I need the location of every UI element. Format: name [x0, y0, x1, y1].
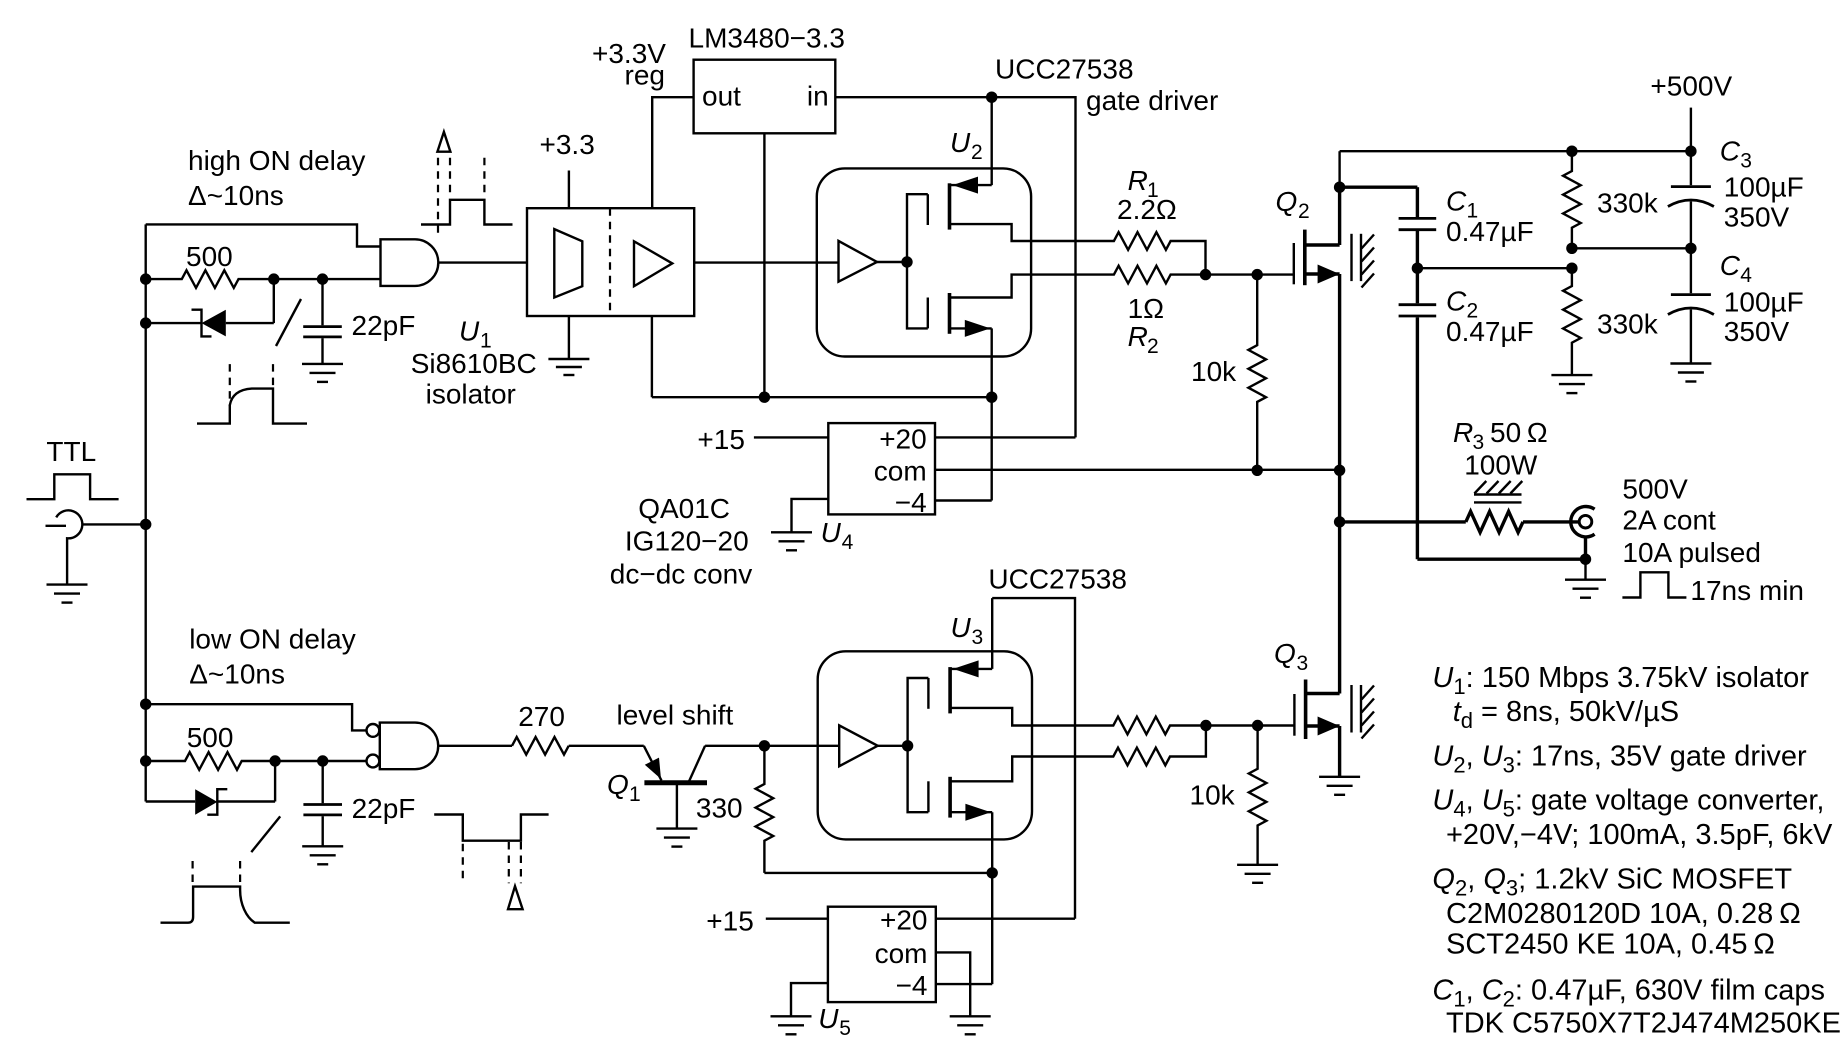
svg-text:50 Ω: 50 Ω — [1490, 417, 1548, 448]
wire 500 to NAND gate B input — [275, 760, 366, 762]
svg-text:100µF: 100µF — [1724, 172, 1804, 203]
U3 upper MOSFET — [928, 660, 1032, 725]
node U2 gate — [901, 256, 912, 267]
capacitor 22pF (top) — [303, 279, 342, 364]
svg-text:100W: 100W — [1464, 450, 1538, 481]
gate driver U2 box — [817, 168, 1031, 356]
connector J1 (output jack) — [1571, 507, 1595, 560]
regulator LM3480-3.3 box — [694, 60, 836, 134]
wire U5 +20 pin to U3 supply — [936, 918, 1075, 920]
node trunk-500 top — [140, 273, 151, 284]
node 500-diode top — [268, 273, 279, 284]
Q2 case hatch mark — [1352, 234, 1375, 288]
node C3-C4 — [1685, 243, 1696, 254]
svg-text:td = 8ns, 50kV/µS: td = 8ns, 50kV/µS — [1453, 696, 1679, 733]
node reg gnd rail — [759, 392, 770, 403]
svg-text:Q: Q — [607, 769, 629, 800]
wire AND gate output to isolator — [438, 261, 527, 263]
svg-text:350V: 350V — [1724, 316, 1790, 347]
svg-text:UCC27538: UCC27538 — [988, 564, 1127, 595]
svg-text:1: 1 — [629, 783, 641, 806]
node 22pF bottom — [317, 755, 328, 766]
capacitor C4 (electrolytic) — [1668, 248, 1714, 363]
svg-text:R: R — [1128, 321, 1148, 352]
wire C1-C2 node to divider — [1417, 267, 1572, 269]
node rail-330k — [1566, 146, 1577, 157]
wire buffer output to gate node (U3) — [878, 745, 908, 747]
svg-text:3: 3 — [1740, 150, 1752, 173]
U2 source rail vertical — [991, 328, 993, 500]
dc-dc converter U4 box — [828, 423, 935, 514]
svg-text:U: U — [459, 316, 480, 347]
isolator right bottom stub to ground rail — [651, 316, 653, 397]
svg-text:C1, C2: 0.47µF, 630V film caps: C1, C2: 0.47µF, 630V film caps — [1432, 975, 1825, 1012]
node U2 source rail — [986, 392, 997, 403]
resistor R2 1ohm — [1031, 266, 1205, 284]
U5 ground stub — [791, 983, 828, 1016]
node R1-R2 join — [1200, 269, 1211, 280]
svg-text:330k: 330k — [1597, 188, 1659, 219]
svg-text:+20: +20 — [880, 905, 928, 936]
resistor 270 — [512, 737, 569, 755]
node Q1 collector — [759, 740, 770, 751]
+500V rail horizontal — [1340, 150, 1691, 152]
+3.3 supply stub to isolator — [568, 171, 570, 209]
svg-text:isolator: isolator — [426, 379, 516, 410]
wire +15 to U5 — [766, 918, 828, 920]
svg-text:U: U — [818, 1003, 839, 1034]
AND gate A1 (top) — [381, 239, 439, 286]
zener diode D2 (bottom delay) — [146, 761, 275, 815]
TTL pulse generator symbol — [46, 510, 146, 584]
svg-text:3: 3 — [1297, 652, 1309, 675]
isolator U1 box — [527, 208, 694, 316]
ground (TTL source) — [47, 585, 88, 603]
dc-dc converter U5 box — [828, 907, 936, 1002]
ground (isolator left side) — [548, 316, 589, 375]
wire buffer output to gate node — [877, 261, 907, 263]
node U3 gate — [902, 740, 913, 751]
svg-text:330: 330 — [696, 793, 743, 824]
Q3 case hatch mark — [1352, 685, 1375, 739]
U3 input buffer triangle — [839, 725, 878, 766]
svg-text:100µF: 100µF — [1724, 287, 1804, 318]
edge stroke (rising edge mark, top) — [276, 299, 301, 346]
isolator input buffer trapezoid — [554, 229, 582, 297]
wire top input to AND gate A1 — [146, 224, 381, 246]
ground (connector) — [1565, 559, 1606, 598]
svg-text:TDK C5750X7T2J474M250KE: TDK C5750X7T2J474M250KE — [1446, 1008, 1841, 1040]
svg-text:IG120−20: IG120−20 — [625, 525, 749, 556]
svg-text:U4, U5: gate voltage converter: U4, U5: gate voltage converter, — [1432, 785, 1824, 822]
svg-text:500V: 500V — [1622, 473, 1688, 504]
ground (C4) — [1670, 364, 1711, 382]
svg-text:10k: 10k — [1191, 356, 1237, 387]
edge stroke (falling edge mark, bottom) — [251, 816, 280, 852]
svg-text:22pF: 22pF — [352, 310, 416, 341]
node trunk-500 bottom — [140, 755, 151, 766]
ground (330k divider) — [1551, 375, 1592, 393]
svg-text:350V: 350V — [1724, 201, 1790, 232]
NAND gate A2 (bottom) — [367, 723, 439, 770]
node output — [1334, 516, 1345, 527]
isolator output buffer triangle — [634, 241, 672, 286]
svg-text:3: 3 — [972, 626, 984, 649]
node U2 supply — [986, 92, 997, 103]
svg-text:U2, U3: 17ns, 35V gate driver: U2, U3: 17ns, 35V gate driver — [1432, 741, 1807, 778]
svg-text:4: 4 — [842, 531, 854, 554]
U2 input buffer triangle — [839, 241, 878, 282]
svg-text:com: com — [875, 938, 928, 969]
gate driver U3 box — [818, 651, 1032, 839]
svg-text:+500V: +500V — [1650, 71, 1732, 102]
ground (Q3 source) — [1319, 777, 1360, 795]
svg-text:SCT2450 KE 10A, 0.45 Ω: SCT2450 KE 10A, 0.45 Ω — [1446, 929, 1775, 961]
waveform TTL pulse — [27, 474, 119, 499]
svg-text:U: U — [951, 612, 972, 643]
svg-text:0.47µF: 0.47µF — [1446, 316, 1534, 347]
svg-text:R: R — [1453, 417, 1473, 448]
transistor Q1 (level shift) — [644, 746, 765, 829]
svg-text:Q2, Q3; 1.2kV SiC MOSFET: Q2, Q3; 1.2kV SiC MOSFET — [1432, 864, 1792, 901]
svg-text:level shift: level shift — [617, 700, 734, 731]
wire gate node to Q3 — [1206, 724, 1295, 726]
wire 270 to Q1 emitter — [569, 745, 644, 747]
zener diode D1 (top delay) — [146, 279, 274, 336]
svg-text:Si8610BC: Si8610BC — [411, 348, 537, 379]
svg-text:+3.3: +3.3 — [540, 129, 595, 160]
ground (10k lower) — [1237, 865, 1278, 883]
svg-text:−4: −4 — [896, 970, 928, 1001]
svg-text:Q: Q — [1274, 638, 1296, 669]
node Q2 drain — [1334, 182, 1345, 193]
svg-text:270: 270 — [518, 701, 565, 732]
svg-text:22pF: 22pF — [352, 793, 416, 824]
svg-text:R: R — [1128, 165, 1148, 196]
wire U4 com pin to Q2 source — [935, 469, 1340, 471]
resistor 330k (lower) — [1563, 268, 1581, 375]
wire LM3480 gnd pin down to rail — [763, 133, 765, 397]
svg-text:330k: 330k — [1597, 309, 1659, 340]
waveform delayed pulse (above AND gate) — [421, 132, 513, 236]
ground rail (isolated side common) — [652, 396, 992, 398]
wire gate node to Q2 — [1206, 273, 1294, 275]
svg-text:10k: 10k — [1190, 780, 1236, 811]
wire +15 to U4 — [754, 436, 828, 438]
resistor 10k (upper) — [1248, 275, 1266, 471]
wire trunk vertical from TTL input — [144, 224, 146, 801]
svg-text:5: 5 — [839, 1017, 851, 1040]
wire U4 -4 pin to U2 source rail — [935, 499, 992, 501]
svg-text:−4: −4 — [895, 487, 927, 518]
U2 supply rail vertical — [991, 97, 993, 185]
svg-text:2: 2 — [1298, 200, 1310, 223]
svg-text:1Ω: 1Ω — [1128, 293, 1165, 324]
U3 gate node vertical — [908, 678, 929, 812]
svg-text:17ns min: 17ns min — [1690, 575, 1804, 606]
wire 330 bottom to U3 source rail — [764, 872, 992, 874]
svg-text:+15: +15 — [706, 906, 754, 937]
node Q2 source-com — [1334, 465, 1345, 476]
waveform pulse with RC fall (bottom delay) — [161, 861, 290, 923]
U3 lower MOSFET — [928, 757, 1032, 821]
U2 lower MOSFET — [928, 275, 1031, 337]
node 330k-C1C2 — [1566, 263, 1577, 274]
svg-text:out: out — [702, 81, 741, 112]
svg-text:+20: +20 — [879, 423, 927, 454]
node 22pF top — [317, 273, 328, 284]
U3 supply top link — [992, 598, 1075, 919]
wire top input to NAND gate A2 — [146, 704, 367, 730]
svg-text:2: 2 — [971, 141, 983, 164]
node 330k mid — [1566, 243, 1577, 254]
wire NAND output — [438, 745, 512, 747]
svg-text:U: U — [821, 517, 842, 548]
svg-text:TTL: TTL — [46, 436, 96, 467]
resistor R1 2.2ohm — [1031, 232, 1205, 274]
svg-text:2: 2 — [1147, 335, 1159, 358]
isolator internal divider — [609, 208, 611, 316]
svg-text:high ON delay: high ON delay — [188, 145, 365, 176]
ground (22pF top) — [302, 364, 343, 382]
resistor 500 (top) — [146, 270, 274, 288]
svg-text:10A pulsed: 10A pulsed — [1622, 537, 1761, 568]
ground (22pF bottom) — [302, 846, 343, 864]
resistor 330 (Q1 collector load) — [756, 746, 774, 873]
transistor Q2 (SiC MOSFET) — [1294, 187, 1340, 522]
U2 gate node vertical — [907, 194, 928, 328]
svg-text:2A cont: 2A cont — [1622, 504, 1716, 535]
wire Q1 collector node to U3 input — [764, 745, 839, 747]
node C1-C2 — [1412, 263, 1423, 274]
node 500-diode bottom — [269, 755, 280, 766]
U2 upper MOSFET — [928, 177, 1031, 241]
resistor gate drive (lower, U3) — [1032, 726, 1206, 766]
svg-text:Q: Q — [1276, 186, 1298, 217]
svg-text:Δ~10ns: Δ~10ns — [188, 180, 284, 211]
svg-text:U: U — [950, 127, 971, 158]
node 10k lower top — [1252, 720, 1263, 731]
U3 source rail vertical — [991, 812, 993, 984]
svg-text:4: 4 — [1740, 264, 1752, 287]
capacitor C2 — [1399, 268, 1437, 559]
transistor Q3 (SiC MOSFET) — [1294, 522, 1339, 777]
ground (U4) — [771, 532, 812, 550]
wire in pin to U2 supply — [835, 97, 1075, 437]
U3 supply rail vertical — [991, 598, 993, 669]
wire isolator output to U2 input — [694, 261, 838, 263]
node 10k bottom — [1252, 465, 1263, 476]
capacitor 22pF (bottom) — [303, 761, 342, 846]
svg-text:C: C — [1720, 250, 1741, 281]
node U3 source rail — [987, 867, 998, 878]
svg-text:U1: 150 Mbps 3.75kV isolator: U1: 150 Mbps 3.75kV isolator — [1432, 662, 1809, 699]
wire divider mid to C3-C4 node — [1572, 247, 1691, 249]
svg-text:2.2Ω: 2.2Ω — [1117, 194, 1177, 225]
svg-text:C: C — [1446, 286, 1467, 317]
svg-text:gate driver: gate driver — [1086, 85, 1218, 116]
waveform inverted pulse (level shift) — [434, 815, 548, 910]
svg-text:+20V,−4V; 100mA, 3.5pF, 6kV: +20V,−4V; 100mA, 3.5pF, 6kV — [1446, 819, 1833, 851]
wire rail down to Q2 drain node — [1338, 151, 1340, 187]
heatsink symbol (R3) — [1474, 481, 1522, 502]
resistor gate drive (upper, U3) — [1032, 717, 1206, 735]
svg-text:low ON delay: low ON delay — [189, 624, 356, 655]
ground (Q1) — [656, 829, 697, 847]
node TTL input — [140, 519, 151, 530]
wire 500 to AND gate B input — [274, 278, 381, 280]
wire R3 to connector — [1523, 520, 1580, 523]
node 10k top — [1252, 269, 1263, 280]
svg-text:com: com — [874, 456, 927, 487]
svg-text:LM3480−3.3: LM3480−3.3 — [689, 23, 845, 54]
U4 ground stub — [792, 499, 829, 532]
ground (U5 com) — [950, 1016, 991, 1034]
resistor 10k (lower) — [1249, 726, 1267, 865]
+500V supply stub — [1690, 108, 1692, 152]
svg-text:C2M0280120D 10A, 0.28 Ω: C2M0280120D 10A, 0.28 Ω — [1446, 898, 1801, 930]
waveform 17ns pulse — [1622, 572, 1686, 597]
svg-text:QA01C: QA01C — [638, 493, 730, 524]
output node wire to R3 — [1340, 520, 1466, 523]
wire U4 +20 pin to U2 supply — [935, 436, 1076, 438]
svg-text:in: in — [807, 81, 829, 112]
resistor 500 (bottom) — [146, 752, 275, 770]
ground (U5) — [771, 1016, 812, 1034]
node trunk-diode top — [140, 317, 151, 328]
wire C2 return to connector shell — [1417, 558, 1585, 561]
node rail-C3 — [1685, 146, 1696, 157]
wire U5 com pin to ground — [936, 952, 970, 1016]
svg-text:dc−dc conv: dc−dc conv — [610, 558, 752, 589]
svg-text:0.47µF: 0.47µF — [1446, 216, 1534, 247]
waveform RC rise (top delay) — [197, 364, 307, 424]
svg-text:reg: reg — [625, 60, 665, 91]
node dots (junctions) — [140, 92, 1697, 879]
svg-text:C: C — [1446, 186, 1467, 217]
wire out pin to isolator top — [652, 97, 693, 208]
svg-text:500: 500 — [186, 241, 233, 272]
node trunk-gate2 top input — [140, 699, 151, 710]
wire U5 -4 pin to U3 source rail — [936, 983, 992, 985]
svg-text:+15: +15 — [697, 424, 745, 455]
svg-text:500: 500 — [187, 722, 234, 753]
resistor R3 50ohm — [1466, 511, 1523, 532]
resistor 330k (upper) — [1563, 151, 1581, 248]
svg-text:C: C — [1720, 136, 1741, 167]
capacitor C1 — [1340, 187, 1437, 268]
svg-text:Δ~10ns: Δ~10ns — [189, 659, 285, 690]
svg-text:UCC27538: UCC27538 — [995, 54, 1134, 85]
capacitor C3 (electrolytic) — [1668, 151, 1714, 248]
node gate resistor join (U3) — [1200, 720, 1211, 731]
node connector shell — [1580, 554, 1591, 565]
